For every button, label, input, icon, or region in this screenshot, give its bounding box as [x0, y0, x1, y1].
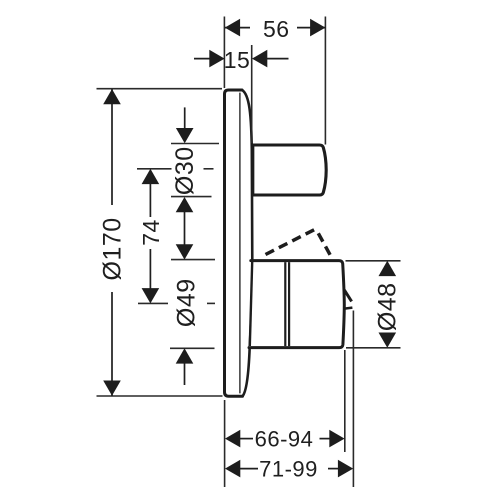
svg-text:Ø48: Ø48 — [374, 282, 402, 331]
dashed rotated-handle position, upper edge — [266, 229, 317, 255]
dimension 74: top arrow — [142, 169, 160, 184]
dimension Ø48: bottom arrow — [379, 333, 397, 348]
svg-text:Ø170: Ø170 — [99, 217, 127, 280]
extension line handle top (Ø49) — [171, 259, 215, 261]
top extension line at plate back (15) — [251, 45, 253, 143]
bottom extension line at stop button (71-99) — [352, 311, 354, 488]
handle body (base cone + grip) — [249, 261, 344, 348]
dimension 56: left arrow — [225, 19, 240, 37]
svg-text:66-94: 66-94 — [255, 427, 314, 452]
svg-text:15: 15 — [224, 47, 251, 73]
dimension 66-94: left arrow — [225, 430, 240, 448]
top extension line at plate front face — [223, 17, 225, 89]
svg-text:71-99: 71-99 — [259, 457, 318, 482]
top extension line at knob end (56) — [324, 17, 326, 145]
safety-stop button marks on handle end — [344, 290, 351, 302]
dashed rotated-handle position, end edge — [318, 233, 332, 258]
escutcheon plate outline (front face + top/bottom edges) — [225, 90, 243, 396]
dimension Ø48: top arrow — [379, 261, 397, 276]
knob centre line (74) — [137, 168, 172, 170]
dimension Ø170: bottom arrow — [103, 381, 121, 396]
dimension Ø49: bottom arrow + tail — [176, 348, 194, 363]
plate silhouette passing behind handle — [250, 262, 252, 346]
dimension 71-99: left arrow — [225, 460, 240, 478]
shared double arrow between Ø30 bottom and Ø49 top — [184, 210, 186, 246]
dimension Ø170: top arrow — [103, 89, 121, 104]
extension line knob bottom (Ø30) — [171, 196, 212, 198]
handle divider line 1 — [284, 262, 286, 346]
dimension Ø30: top arrow + tail — [184, 107, 186, 130]
diverter knob (Ø30) — [253, 145, 326, 195]
svg-text:74: 74 — [138, 219, 164, 246]
bottom extension line at handle end (66-94) — [344, 350, 346, 452]
svg-text:Ø49: Ø49 — [173, 278, 201, 327]
handle divider line 2 — [288, 262, 290, 346]
dimension 74: bottom arrow — [149, 249, 151, 289]
extension line handle bottom right (Ø48) — [346, 347, 401, 349]
extension line knob top (Ø30) — [171, 143, 219, 145]
dimension 15: right arrow + tail — [252, 50, 267, 68]
dimension 15: left tail + arrow — [194, 58, 211, 60]
extension line handle top right (Ø48) — [346, 260, 401, 262]
dimension 66-94: right arrow — [320, 438, 331, 440]
escutcheon plate back silhouette curve — [242, 90, 252, 396]
plate front-face inner edge line — [239, 93, 241, 394]
svg-text:56: 56 — [263, 16, 290, 42]
left extension line at plate bottom (Ø170) — [97, 395, 223, 397]
extension line handle bottom (Ø49) — [170, 347, 215, 349]
svg-text:Ø30: Ø30 — [171, 146, 199, 195]
bottom extension line at plate front (66-94 / 71-99) — [224, 400, 226, 487]
dimension 56: right arrow — [310, 19, 325, 37]
dimension 71-99: right arrow — [328, 468, 339, 470]
left extension line at plate top (Ø170) — [97, 88, 223, 90]
dimension Ø170: line — [111, 89, 113, 205]
handle centre line (74) — [138, 302, 168, 304]
dimension 56: line — [225, 27, 250, 29]
